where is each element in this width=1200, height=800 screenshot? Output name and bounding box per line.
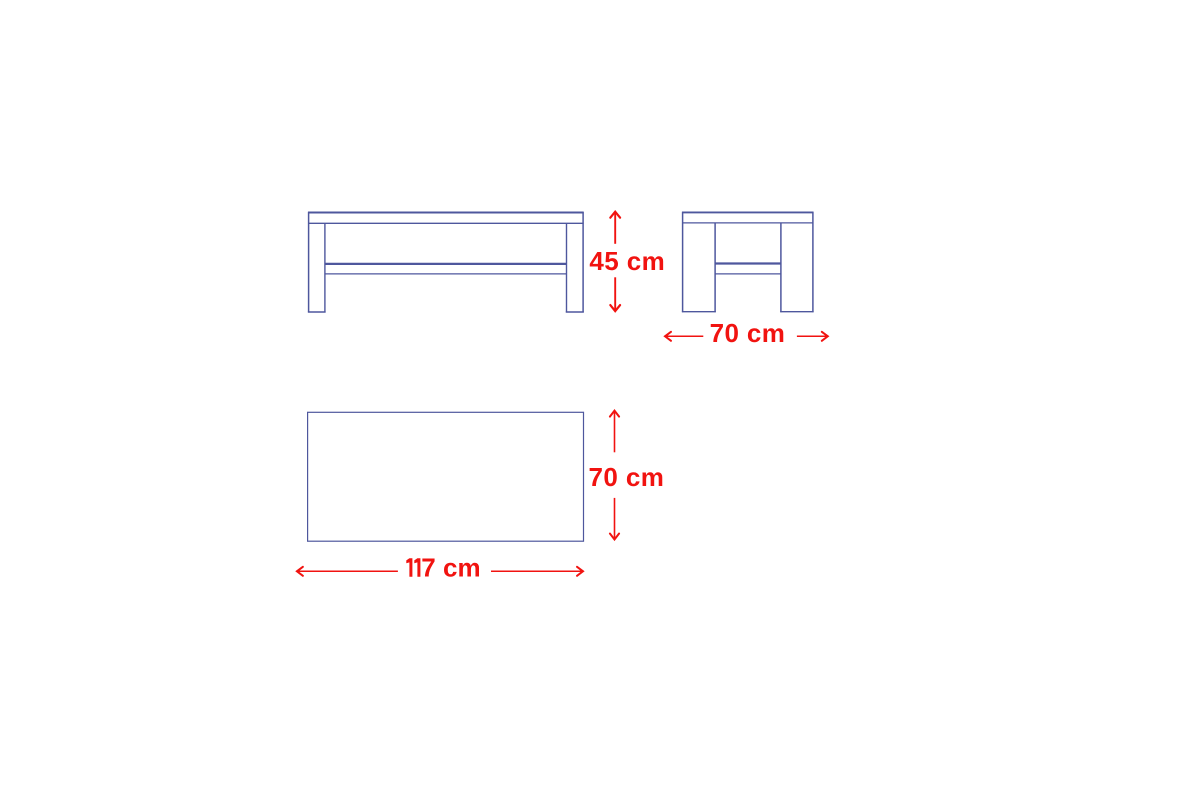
svg-text:70 cm: 70 cm xyxy=(589,462,665,492)
label 117 cm : digit 1 (second) xyxy=(414,558,420,577)
depth dimension 70 cm : right arrow xyxy=(797,332,828,341)
side view shelf xyxy=(715,264,781,274)
label 117 cm : digit 1 (first) xyxy=(406,558,412,577)
svg-text:7 cm: 7 cm xyxy=(421,553,480,583)
front view shelf xyxy=(325,264,567,274)
front view right leg xyxy=(566,212,584,313)
depth dimension 70 cm : left arrow xyxy=(665,332,703,341)
svg-text:45 cm: 45 cm xyxy=(589,246,665,276)
top-view depth dimension 70 cm : lower arrow xyxy=(610,498,619,540)
width dimension 117 cm : right arrow xyxy=(491,567,583,576)
front view left leg xyxy=(308,212,326,313)
top view tabletop outline xyxy=(308,412,584,541)
width dimension 117 cm : left arrow xyxy=(297,567,398,576)
side view left leg xyxy=(682,212,716,313)
side view right leg xyxy=(780,212,813,313)
height dimension 45 cm : lower arrow xyxy=(610,277,620,311)
front view tabletop xyxy=(308,213,584,224)
height dimension 45 cm : upper arrow xyxy=(610,212,620,244)
svg-text:70 cm: 70 cm xyxy=(710,318,786,348)
top-view depth dimension 70 cm : upper arrow xyxy=(610,411,619,453)
side view tabletop xyxy=(682,212,813,223)
